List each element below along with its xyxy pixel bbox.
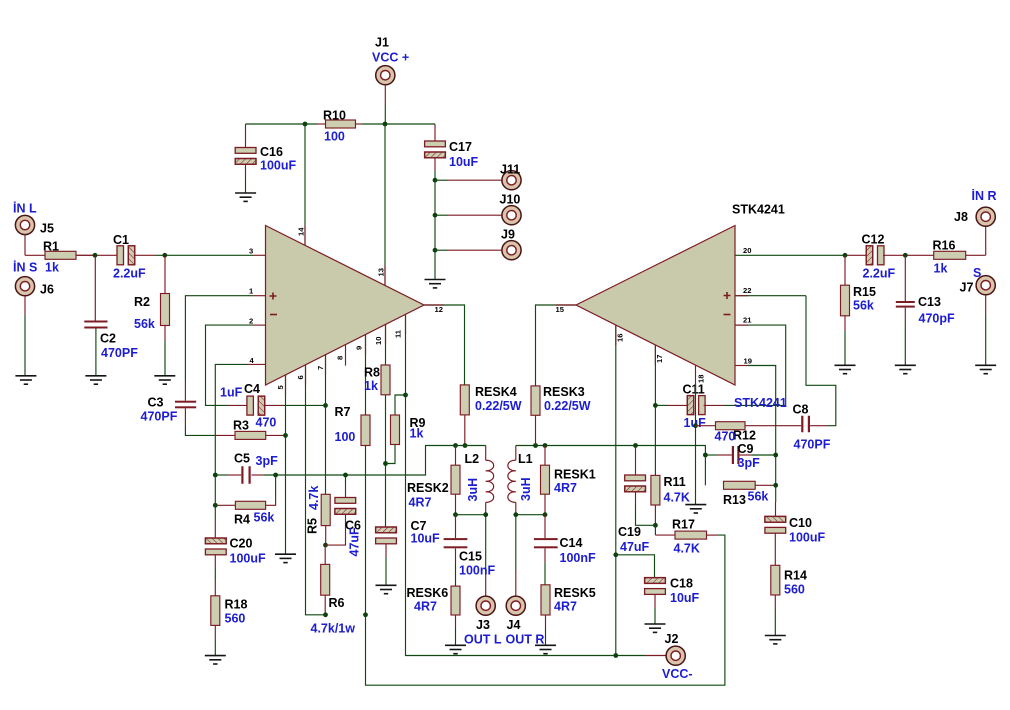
label C3 xyxy=(148,395,164,409)
value 4.7k/1w (R6) xyxy=(311,622,356,636)
label R14 xyxy=(784,569,807,583)
pin label 3 xyxy=(249,246,253,255)
resistor RESK6 xyxy=(451,586,460,645)
svg-text:C14: C14 xyxy=(560,536,583,550)
pin 17 wire xyxy=(654,345,656,406)
svg-text:100: 100 xyxy=(324,130,345,144)
svg-text:22: 22 xyxy=(743,286,751,295)
svg-text:İN S: İN S xyxy=(13,260,37,275)
pin 1 feedback wire xyxy=(185,296,265,401)
value 4R7 (RESK1) xyxy=(554,481,577,495)
value 100nF (C14) xyxy=(560,551,596,565)
value 4.7K (R11) xyxy=(664,491,690,505)
svg-text:J9: J9 xyxy=(501,228,515,242)
pin 13 wire xyxy=(384,124,386,285)
pin 16 wire xyxy=(615,325,617,656)
svg-text:4R7: 4R7 xyxy=(554,481,577,495)
value 10uF (C7) xyxy=(411,532,441,546)
pin 21 wire xyxy=(735,325,786,405)
pin label 10 xyxy=(374,337,383,345)
label C13 xyxy=(918,295,941,309)
junction C12/C13 xyxy=(903,253,908,258)
svg-text:OUT R: OUT R xyxy=(506,633,545,647)
svg-text:4.7k: 4.7k xyxy=(307,486,321,510)
capacitor C10 xyxy=(765,485,786,565)
value 3pF (C5) xyxy=(256,454,279,468)
pin 11 wire xyxy=(406,314,667,655)
pin label 17 xyxy=(655,355,664,363)
junction C5/R4 xyxy=(273,473,278,478)
label C12 xyxy=(862,233,885,247)
label STK4241 (blue) xyxy=(734,396,787,410)
value 1k (R1) xyxy=(45,261,59,275)
svg-text:100uF: 100uF xyxy=(230,552,266,566)
ground under C16 xyxy=(235,193,256,201)
wire rail to bottom loop xyxy=(366,535,725,685)
svg-text:RESK2: RESK2 xyxy=(407,481,449,495)
junction pin18/R12 xyxy=(693,423,698,428)
wire C12 to R16 xyxy=(883,254,934,256)
label R4 xyxy=(234,513,250,527)
value 4R7 (RESK2) xyxy=(409,496,432,510)
svg-text:VCC +: VCC + xyxy=(372,51,409,65)
svg-text:J1: J1 xyxy=(375,36,389,50)
value 100 (R7) xyxy=(335,430,356,444)
capacitor C15 xyxy=(444,515,468,586)
op-amp U1 (left half STK4241) xyxy=(266,226,425,386)
connector J6 xyxy=(15,277,34,376)
junction C6 tap xyxy=(343,473,348,478)
svg-text:C9: C9 xyxy=(738,442,754,456)
svg-text:R11: R11 xyxy=(664,475,686,489)
svg-text:4.7k/1w: 4.7k/1w xyxy=(311,622,356,636)
svg-text:R16: R16 xyxy=(933,239,956,253)
junction RESK1/node xyxy=(543,443,548,448)
value 4.7K (R17) xyxy=(674,542,700,556)
svg-text:İN L: İN L xyxy=(13,201,37,216)
wire to J9 xyxy=(435,249,502,251)
connector J5 xyxy=(15,215,34,255)
resistor R4 xyxy=(215,475,275,509)
svg-text:21: 21 xyxy=(743,316,752,325)
plus symbol U2 xyxy=(724,292,731,299)
pin label 21 xyxy=(743,316,752,325)
svg-text:470PF: 470PF xyxy=(101,346,138,360)
junction J9 tap xyxy=(433,248,438,253)
resistor R3 xyxy=(235,431,286,439)
svg-text:J4: J4 xyxy=(507,618,521,632)
label R6 xyxy=(329,596,345,610)
capacitor C7 xyxy=(376,527,397,585)
junction pin17/C11 xyxy=(653,403,658,408)
value 4R7 (RESK5) xyxy=(554,600,577,614)
value 0.22/5W (RESK4) xyxy=(475,399,522,413)
svg-text:100uF: 100uF xyxy=(260,159,296,173)
capacitor C14 xyxy=(534,515,558,585)
svg-text:2.2uF: 2.2uF xyxy=(863,267,896,281)
wire top rail y=124 xyxy=(246,123,436,125)
value 56k (R15) xyxy=(853,299,874,313)
wire right output node xyxy=(516,446,706,456)
junction R13/pin19 xyxy=(773,483,778,488)
connector J9 xyxy=(502,241,521,260)
label C17 xyxy=(449,140,472,154)
pin 2 feedback wire xyxy=(206,325,266,405)
pin 22 wire xyxy=(735,295,806,297)
capacitor C6 xyxy=(326,475,356,545)
label C9 xyxy=(738,442,754,456)
wire R16 to J8 xyxy=(985,226,987,255)
label L1 xyxy=(518,452,533,466)
wire C18 branch xyxy=(616,555,655,578)
junction J11 tap xyxy=(433,178,438,183)
value 0.22/5W (RESK3) xyxy=(544,399,591,413)
junction R5/C6 xyxy=(323,543,328,548)
svg-text:100nF: 100nF xyxy=(560,551,596,565)
connector J8 xyxy=(976,207,995,226)
wire R7 to rail xyxy=(365,446,367,615)
label J1 xyxy=(375,36,389,50)
value 560 (R18) xyxy=(225,612,246,626)
junction R1/C1/C2 xyxy=(93,253,98,258)
label C18 xyxy=(670,577,693,591)
label C15 xyxy=(459,550,482,564)
pin label 19 xyxy=(744,357,752,366)
inductor L1 xyxy=(508,446,516,515)
svg-text:RESK5: RESK5 xyxy=(554,586,596,600)
pin 6 wire xyxy=(306,365,326,615)
value 56k (R2) xyxy=(134,317,155,331)
label R1 xyxy=(43,240,59,254)
svg-text:14: 14 xyxy=(297,227,306,236)
label J3 xyxy=(476,618,490,632)
svg-text:R15: R15 xyxy=(853,285,876,299)
value 100uF (C16) xyxy=(260,159,296,173)
wire left output node xyxy=(456,445,486,447)
label J8 xyxy=(954,210,968,224)
resistor R14 xyxy=(771,565,780,635)
junction C19/node xyxy=(633,443,638,448)
connector J10 xyxy=(502,206,521,225)
capacitor C8 xyxy=(801,296,836,433)
ground under pin18 xyxy=(685,505,706,513)
svg-text:OUT L: OUT L xyxy=(464,633,502,647)
label C10 xyxy=(789,516,812,530)
svg-text:4.7K: 4.7K xyxy=(664,491,690,505)
capacitor C11 xyxy=(655,396,785,415)
svg-text:C2: C2 xyxy=(100,332,116,346)
svg-text:56k: 56k xyxy=(254,511,275,525)
label R10 xyxy=(323,109,346,123)
svg-text:C10: C10 xyxy=(789,516,812,530)
svg-text:R1: R1 xyxy=(43,240,59,254)
svg-text:C12: C12 xyxy=(862,233,885,247)
pin label 12 xyxy=(435,305,443,314)
resistor R11 xyxy=(651,475,660,525)
pin label 15 xyxy=(556,305,565,314)
svg-text:15: 15 xyxy=(556,305,565,314)
svg-text:J2: J2 xyxy=(665,632,679,646)
svg-text:4R7: 4R7 xyxy=(414,600,437,614)
label J7 xyxy=(960,281,974,295)
junction C1/R2 xyxy=(162,253,167,258)
svg-text:C20: C20 xyxy=(230,537,253,551)
op-amp U2 (right half STK4241) xyxy=(576,226,735,386)
svg-text:560: 560 xyxy=(225,612,246,626)
pin 5 wire xyxy=(285,375,287,554)
value 3pF (C9) xyxy=(738,456,761,470)
svg-text:VCC-: VCC- xyxy=(662,667,693,681)
svg-text:C1: C1 xyxy=(113,233,129,247)
svg-text:C13: C13 xyxy=(918,295,941,309)
pin label 1 xyxy=(249,286,254,295)
svg-text:J7: J7 xyxy=(960,281,974,295)
label R15 xyxy=(853,285,876,299)
pin label 9 xyxy=(355,346,364,350)
minus symbol U1 xyxy=(270,314,277,316)
svg-text:3uH: 3uH xyxy=(519,477,533,501)
junction pin14/top rail xyxy=(303,122,308,127)
capacitor C2 xyxy=(84,255,107,375)
pin label 5 xyxy=(276,385,285,390)
svg-text:R3: R3 xyxy=(233,419,249,433)
svg-text:1uF: 1uF xyxy=(220,386,243,400)
ground under R14 xyxy=(765,636,786,644)
junction pin15/node xyxy=(533,443,538,448)
svg-text:0.22/5W: 0.22/5W xyxy=(544,399,591,413)
junction C9 left xyxy=(703,453,708,458)
value 100nF (C15) xyxy=(459,564,495,578)
value 4.7k (R5, rotated) xyxy=(307,486,321,510)
junction C4/pin7 xyxy=(323,403,328,408)
label RESK3 xyxy=(543,385,585,399)
wire C17 to J9/J10/J11 chain xyxy=(434,180,436,280)
pin label 22 xyxy=(743,286,751,295)
capacitor C4 xyxy=(247,396,326,415)
wire R1 to C1 xyxy=(76,254,117,256)
label RESK4 xyxy=(475,385,517,399)
label VCC- xyxy=(662,667,693,681)
resistor R9 xyxy=(386,395,406,464)
value 1k (R9) xyxy=(410,427,424,441)
svg-text:C19: C19 xyxy=(618,525,641,539)
svg-text:4.7K: 4.7K xyxy=(674,542,700,556)
label STK4241 xyxy=(732,203,785,217)
svg-text:470PF: 470PF xyxy=(141,410,178,424)
junction RESK2/C15 node xyxy=(453,512,458,517)
svg-text:100uF: 100uF xyxy=(789,531,825,545)
label R3 xyxy=(233,419,249,433)
label IN S xyxy=(13,260,37,275)
label C7 xyxy=(411,519,427,533)
wire pin17 to R11 xyxy=(654,405,656,475)
junction RESK2/node xyxy=(453,443,458,448)
resistor RESK2 xyxy=(451,446,460,515)
connector J2 (VCC-) xyxy=(666,646,685,665)
label J11 xyxy=(500,163,520,177)
ground under C7 xyxy=(376,585,397,593)
ground under RESK6 xyxy=(445,645,466,653)
value 3uH (L1, rotated) xyxy=(519,477,533,501)
label R5 (rotated) xyxy=(306,518,320,534)
capacitor C5 xyxy=(241,466,250,484)
svg-text:1k: 1k xyxy=(934,262,948,276)
value 4R7 (RESK6) xyxy=(414,600,437,614)
resistor R8 xyxy=(381,365,390,395)
value 1k (R16) xyxy=(934,262,948,276)
ground under R18 xyxy=(205,656,226,664)
junction RESK4/node xyxy=(463,443,468,448)
pin 4 wire xyxy=(215,364,265,475)
svg-text:56k: 56k xyxy=(748,490,769,504)
svg-text:6: 6 xyxy=(296,375,305,379)
svg-text:R4: R4 xyxy=(234,513,250,527)
junction C9/pin19 xyxy=(773,453,778,458)
ground under C13 xyxy=(895,365,916,373)
pin label 8 xyxy=(336,356,345,360)
capacitor C18 xyxy=(645,578,666,624)
svg-text:1k: 1k xyxy=(364,379,378,393)
resistor R13 xyxy=(705,455,775,489)
value 100uF (C10) xyxy=(789,531,825,545)
svg-text:C15: C15 xyxy=(459,550,482,564)
svg-text:C8: C8 xyxy=(793,403,809,417)
capacitor C19 xyxy=(625,446,656,526)
resistor RESK5 xyxy=(541,585,550,646)
pin label 4 xyxy=(250,356,255,365)
junction J10 tap xyxy=(433,213,438,218)
resistor R7 xyxy=(361,415,370,446)
junction pin16/C18 tap xyxy=(613,552,618,557)
svg-text:1k: 1k xyxy=(410,427,424,441)
junction pin20/R15 xyxy=(843,253,848,258)
value 1uF (C11) xyxy=(684,416,707,430)
value 1uF (C4) xyxy=(220,386,243,400)
connector J3 xyxy=(476,596,495,615)
value 470PF (C2) xyxy=(101,346,138,360)
label C4 xyxy=(244,382,260,396)
label J9 xyxy=(501,228,515,242)
connector J7 xyxy=(976,276,995,366)
resistor R16 xyxy=(934,251,986,259)
ground under pin5 xyxy=(275,554,296,562)
ground under J9 chain xyxy=(425,280,446,288)
svg-text:R5: R5 xyxy=(306,518,320,534)
ground under R2 xyxy=(154,376,175,384)
label R2 xyxy=(134,295,150,309)
svg-text:12: 12 xyxy=(435,305,443,314)
capacitor C3 xyxy=(175,401,235,436)
svg-text:R7: R7 xyxy=(335,405,351,419)
label OUT L xyxy=(464,633,502,647)
wire J3 lead xyxy=(485,515,487,597)
wire to J10 xyxy=(435,214,502,216)
wire C1 to pin3 xyxy=(134,254,266,256)
pin 8 stub (n/c) xyxy=(345,345,347,366)
label R11 xyxy=(664,475,686,489)
label C16 xyxy=(260,145,283,159)
resistor RESK3 xyxy=(531,386,540,446)
connector J11 xyxy=(502,171,521,190)
value 470 (R3) xyxy=(256,416,277,430)
pin label 6 xyxy=(296,375,305,379)
svg-text:56k: 56k xyxy=(134,317,155,331)
svg-text:R2: R2 xyxy=(134,295,150,309)
svg-text:R17: R17 xyxy=(672,518,695,532)
connector J4 xyxy=(506,596,525,615)
junction R3/pin5 xyxy=(283,433,288,438)
value 47uF (C19) xyxy=(620,540,650,554)
wire C9 row xyxy=(705,454,775,456)
value 10uF (C18) xyxy=(670,591,700,605)
ground under C18 xyxy=(645,624,666,632)
value 2.2uF (C1) xyxy=(113,267,146,281)
svg-text:470: 470 xyxy=(256,416,277,430)
label C8 xyxy=(793,403,809,417)
junction R9/pin11 xyxy=(403,393,408,398)
svg-text:C3: C3 xyxy=(148,395,164,409)
pin label 14 xyxy=(297,227,306,236)
capacitor C17 xyxy=(425,124,446,180)
label RESK6 xyxy=(407,586,449,600)
junction R11/C19 xyxy=(653,523,658,528)
label RESK1 xyxy=(554,468,596,482)
svg-text:J8: J8 xyxy=(954,210,968,224)
value 10uF (C17) xyxy=(449,155,479,169)
ground under J6 xyxy=(15,376,36,384)
svg-text:4R7: 4R7 xyxy=(554,600,577,614)
label OUT R xyxy=(506,633,545,647)
svg-text:STK4241: STK4241 xyxy=(734,396,787,410)
label S xyxy=(973,266,981,280)
capacitor C13 xyxy=(896,255,915,365)
resistor RESK4 xyxy=(460,385,469,446)
svg-text:470pF: 470pF xyxy=(919,312,955,326)
junction L2/J3 node xyxy=(483,512,488,517)
svg-text:J5: J5 xyxy=(40,222,54,236)
svg-text:2.2uF: 2.2uF xyxy=(113,267,146,281)
svg-text:L1: L1 xyxy=(518,452,533,466)
svg-text:R10: R10 xyxy=(323,109,346,123)
value 470 (R12) xyxy=(715,430,736,444)
value 100 (R10) xyxy=(324,130,345,144)
pin 19 wire xyxy=(735,366,776,486)
svg-text:J3: J3 xyxy=(476,618,490,632)
label J2 xyxy=(665,632,679,646)
svg-text:10uF: 10uF xyxy=(670,591,700,605)
label C11 xyxy=(683,383,705,397)
label R8 xyxy=(364,366,380,380)
pin 20 wire xyxy=(735,254,866,256)
junction pin16/VCC- rail xyxy=(613,653,618,658)
label R12 xyxy=(733,429,756,443)
svg-text:C17: C17 xyxy=(449,140,472,154)
svg-text:17: 17 xyxy=(655,355,664,363)
label IN L xyxy=(13,201,37,216)
svg-text:1k: 1k xyxy=(45,261,59,275)
capacitor C9 xyxy=(732,446,740,464)
pin 10 wire xyxy=(385,324,387,365)
svg-text:10: 10 xyxy=(374,337,383,345)
svg-text:RESK1: RESK1 xyxy=(554,468,596,482)
minus symbol U2 xyxy=(724,314,731,316)
wire J4 lead xyxy=(515,515,517,597)
label C20 xyxy=(230,537,253,551)
wire to J11 xyxy=(435,179,502,181)
resistor R17 xyxy=(655,525,706,539)
capacitor C16 xyxy=(235,124,256,193)
value 470PF (C8) xyxy=(794,438,831,452)
